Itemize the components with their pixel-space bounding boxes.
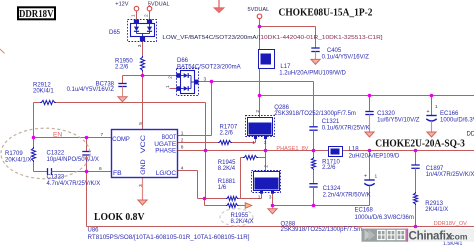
- svg-text:1: 1: [258, 194, 261, 200]
- svg-text:U86: U86: [88, 228, 100, 234]
- svg-text:4: 4: [181, 165, 184, 171]
- svg-text:2: 2: [181, 138, 184, 144]
- svg-text:1/6: 1/6: [218, 185, 227, 191]
- svg-text:VCC: VCC: [140, 135, 147, 154]
- svg-text:8: 8: [181, 145, 184, 151]
- svg-text:2: 2: [144, 14, 150, 17]
- svg-text:D66: D66: [177, 58, 189, 64]
- svg-text:DDR18V: DDR18V: [19, 8, 54, 20]
- svg-text:L17: L17: [280, 64, 291, 70]
- svg-text:C1322: C1322: [47, 151, 65, 157]
- svg-text:20K/4/1: 20K/4/1: [33, 89, 54, 95]
- svg-text:8.2K/4/X: 8.2K/4/X: [231, 219, 254, 225]
- svg-text:CHOKE08U-15A_1P-2: CHOKE08U-15A_1P-2: [279, 8, 373, 19]
- svg-text:2: 2: [255, 110, 261, 113]
- svg-text:.com: .com: [448, 231, 468, 241]
- svg-text:4.7n/4/X7R/25V/K/X: 4.7n/4/X7R/25V/K/X: [47, 181, 101, 187]
- svg-text:C1320: C1320: [377, 111, 395, 117]
- svg-text:20K/4/1/X: 20K/4/1/X: [5, 158, 31, 164]
- svg-text:EC168: EC168: [355, 208, 374, 214]
- svg-text:0.1u/4/Y5V/16V/Z: 0.1u/4/Y5V/16V/Z: [67, 87, 115, 93]
- svg-text:FB: FB: [113, 170, 122, 177]
- svg-text:C1321: C1321: [322, 119, 340, 125]
- svg-text:DDR18V_OV: DDR18V_OV: [434, 221, 468, 227]
- svg-text:5VDUAL: 5VDUAL: [248, 7, 270, 13]
- svg-text:DDR18V: DDR18V: [467, 132, 474, 138]
- svg-text:+12V: +12V: [115, 1, 128, 7]
- svg-text:3: 3: [138, 184, 144, 187]
- svg-text:D65: D65: [109, 30, 121, 36]
- svg-text:EN: EN: [53, 132, 62, 139]
- svg-text:5VDUAL: 5VDUAL: [148, 1, 170, 7]
- svg-text:2.2/6: 2.2/6: [115, 65, 129, 71]
- svg-text:10p/4/NPO/50V/J/X: 10p/4/NPO/50V/J/X: [47, 157, 99, 163]
- svg-text:R1709: R1709: [5, 151, 23, 157]
- svg-text:0.1u/6/X7R/25V/K: 0.1u/6/X7R/25V/K: [322, 126, 370, 132]
- svg-text:C1323: C1323: [47, 175, 65, 181]
- svg-text:PHASE: PHASE: [155, 148, 176, 155]
- svg-text:GND: GND: [140, 159, 147, 174]
- svg-text:RT8105PS/SO8/[10TA1-608105-01R: RT8105PS/SO8/[10TA1-608105-01R_10TA1-608…: [88, 235, 250, 241]
- svg-text:2.2/6: 2.2/6: [220, 130, 234, 136]
- svg-text:1n/4/X7R/25V/K/X: 1n/4/X7R/25V/K/X: [426, 172, 474, 178]
- svg-text:6: 6: [99, 166, 102, 172]
- svg-text:+: +: [427, 109, 430, 115]
- svg-text:Q286: Q286: [274, 105, 289, 111]
- svg-text:COMP: COMP: [112, 136, 130, 143]
- svg-text:LOOK 0.8V: LOOK 0.8V: [94, 212, 145, 223]
- svg-text:0.1u/4/Y5V/16V/Z: 0.1u/4/Y5V/16V/Z: [322, 55, 370, 61]
- svg-text:1: 1: [252, 140, 255, 146]
- svg-text:LOW_VF/BAT54C/SOT23/200mA/: LOW_VF/BAT54C/SOT23/200mA/: [162, 35, 258, 41]
- svg-text:C1324: C1324: [323, 186, 341, 192]
- svg-text:1.2uH/20A/PMU109/W/D: 1.2uH/20A/PMU109/W/D: [279, 71, 346, 77]
- svg-text:1: 1: [435, 104, 438, 110]
- svg-text:1u/6/Y5V/10V/Z: 1u/6/Y5V/10V/Z: [377, 117, 420, 123]
- svg-text:CHOKE2U-20A-SQ-3: CHOKE2U-20A-SQ-3: [375, 138, 465, 149]
- svg-text:R1950: R1950: [115, 58, 133, 64]
- svg-text:1: 1: [165, 85, 171, 88]
- svg-text:2SK3918/TO252/1300pF/7.5m: 2SK3918/TO252/1300pF/7.5m: [281, 227, 363, 233]
- svg-text:3: 3: [204, 76, 207, 82]
- svg-text:2K/4/1/X: 2K/4/1/X: [425, 207, 448, 213]
- svg-text:2: 2: [168, 76, 174, 79]
- svg-text:2.2/6: 2.2/6: [322, 165, 336, 171]
- svg-text:EC166: EC166: [440, 111, 459, 117]
- svg-text:L18: L18: [349, 147, 360, 153]
- svg-text:2: 2: [264, 165, 270, 168]
- svg-text:8.2K/4: 8.2K/4: [218, 166, 236, 172]
- svg-text:1000u/D/6.3V/8C/36m: 1000u/D/6.3V/8C/36m: [440, 117, 474, 123]
- svg-text:1: 1: [131, 14, 137, 17]
- svg-text:BOOT: BOOT: [162, 134, 177, 141]
- svg-text:2SK3918/TO252/1300pF/7.5m: 2SK3918/TO252/1300pF/7.5m: [274, 111, 356, 117]
- svg-text:Chinafix: Chinafix: [409, 230, 453, 243]
- svg-text:BAT54C/SOT23/200mA: BAT54C/SOT23/200mA: [177, 64, 241, 70]
- svg-text:2uH/20A/IEP109/D: 2uH/20A/IEP109/D: [349, 154, 400, 160]
- svg-text:5: 5: [138, 122, 144, 125]
- svg-text:3: 3: [264, 140, 267, 146]
- svg-text:C405: C405: [327, 48, 342, 54]
- svg-text:2.2n/4/X7R/50V/K: 2.2n/4/X7R/50V/K: [323, 193, 371, 199]
- svg-text:7: 7: [101, 132, 104, 138]
- svg-text:1: 1: [181, 130, 184, 136]
- svg-text:PHASE1_8V: PHASE1_8V: [276, 146, 308, 152]
- svg-text:[10DK1-442040-01R_10DK1-325513: [10DK1-442040-01R_10DK1-325513-C1R]: [259, 35, 383, 41]
- svg-text:+: +: [364, 173, 367, 179]
- svg-text:3: 3: [137, 44, 143, 47]
- svg-text:1: 1: [375, 174, 378, 180]
- svg-text:1000u/D/6.3V/8C/36m: 1000u/D/6.3V/8C/36m: [355, 215, 414, 221]
- svg-text:LG/OC: LG/OC: [156, 170, 177, 177]
- svg-text:3: 3: [269, 194, 272, 200]
